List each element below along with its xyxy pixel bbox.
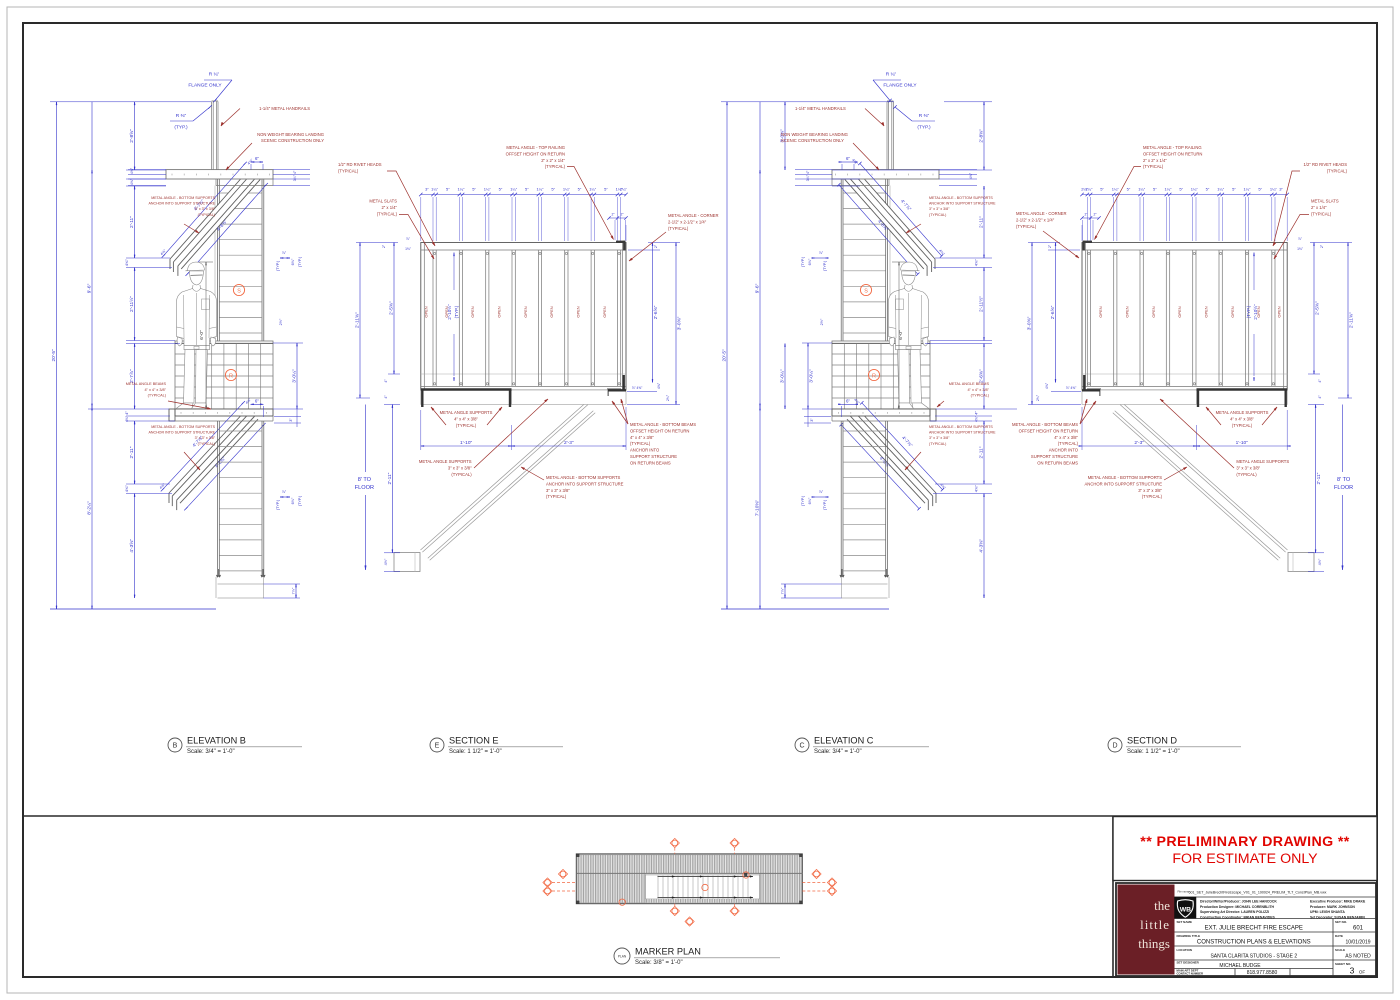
svg-text:3" x 3" x 3/8": 3" x 3" x 3/8" xyxy=(929,436,950,440)
svg-text:SET NO.: SET NO. xyxy=(1335,920,1347,924)
section D top slat spacing dims (blue) xyxy=(1082,194,1287,196)
svg-text:METAL ANGLE - CORNER: METAL ANGLE - CORNER xyxy=(668,213,719,218)
svg-text:METAL ANGLE - BOTTOM SUPPORTS: METAL ANGLE - BOTTOM SUPPORTS xyxy=(546,475,621,480)
svg-text:2'-11": 2'-11" xyxy=(979,216,985,228)
svg-text:4" x 4" x 3/8": 4" x 4" x 3/8" xyxy=(1230,416,1254,421)
elevation B marker R xyxy=(225,369,236,380)
section E corner angle top xyxy=(616,241,626,243)
warner brothers shield logo xyxy=(1175,897,1197,919)
svg-text:4⅝": 4⅝" xyxy=(969,172,973,179)
svg-text:2¾": 2¾" xyxy=(666,394,670,401)
elevation C top landing xyxy=(832,170,939,179)
svg-text:2" x 2" x 1/4": 2" x 2" x 1/4" xyxy=(541,158,565,163)
svg-text:METAL ANGLE - TOP RAILING: METAL ANGLE - TOP RAILING xyxy=(1143,145,1202,150)
svg-text:FLANGE ONLY: FLANGE ONLY xyxy=(883,83,917,89)
svg-text:E: E xyxy=(435,743,440,750)
svg-text:1¼": 1¼" xyxy=(484,187,492,192)
title block table frame xyxy=(1116,883,1376,976)
marker plan top hatched band xyxy=(577,855,801,874)
svg-text:3" x 3" x 3/8": 3" x 3" x 3/8" xyxy=(1138,488,1162,493)
svg-text:2-1/2" x 2-1/2" x 1/4": 2-1/2" x 2-1/2" x 1/4" xyxy=(668,219,707,224)
section D bottom width dims (blue) xyxy=(1197,445,1288,447)
svg-text:OPEN: OPEN xyxy=(602,306,607,317)
svg-text:1/2" RD RIVET HEADS: 1/2" RD RIVET HEADS xyxy=(1303,162,1347,167)
svg-text:601: 601 xyxy=(1353,926,1364,932)
svg-text:METAL ANGLE - BOTTOM BEAMS: METAL ANGLE - BOTTOM BEAMS xyxy=(630,422,696,427)
svg-text:5": 5" xyxy=(472,187,476,192)
elevation C below-grade pit xyxy=(841,583,888,585)
svg-text:⅞" 4⅝": ⅞" 4⅝" xyxy=(632,386,643,390)
svg-text:METAL ANGLE - BOTTOM SUPPORTS: METAL ANGLE - BOTTOM SUPPORTS xyxy=(929,425,993,429)
svg-text:ANCHOR INTO: ANCHOR INTO xyxy=(630,448,660,453)
svg-text:3" x 3" x 3/8": 3" x 3" x 3/8" xyxy=(929,207,950,211)
svg-text:4": 4" xyxy=(124,411,129,415)
svg-text:SUPPORT STRUCTURE: SUPPORT STRUCTURE xyxy=(1031,454,1078,459)
svg-text:METAL SLATS: METAL SLATS xyxy=(1311,199,1339,204)
svg-text:3" x 3" x 3/8": 3" x 3" x 3/8" xyxy=(195,207,216,211)
svg-text:1¼": 1¼" xyxy=(1165,187,1173,192)
svg-text:601_SET_JulieBrechtFireEscape_: 601_SET_JulieBrechtFireEscape_V01_01_190… xyxy=(1189,891,1327,895)
file name row xyxy=(1175,896,1377,898)
svg-text:S: S xyxy=(237,288,241,294)
svg-text:OFFSET HEIGHT ON RETURN: OFFSET HEIGHT ON RETURN xyxy=(630,428,689,433)
svg-text:2'-11": 2'-11" xyxy=(1316,472,1322,484)
svg-text:ON RETURN BEAMS: ON RETURN BEAMS xyxy=(1037,460,1078,465)
svg-text:OPEN: OPEN xyxy=(1125,306,1130,317)
marker plan right hatched block xyxy=(760,873,802,902)
svg-text:1-1/4" METAL HANDRAILS: 1-1/4" METAL HANDRAILS xyxy=(259,106,310,111)
elevation C extra left dims xyxy=(784,102,786,170)
svg-text:(TYP.): (TYP.) xyxy=(917,125,931,131)
svg-text:3" x 3" x 3/8": 3" x 3" x 3/8" xyxy=(448,466,472,471)
svg-text:** PRELIMINARY DRAWING **: ** PRELIMINARY DRAWING ** xyxy=(1140,834,1350,850)
svg-text:2¼": 2¼" xyxy=(620,187,628,192)
svg-text:Set Decorator: SUSAN BENJAMIN: Set Decorator: SUSAN BENJAMIN xyxy=(1310,915,1365,919)
svg-text:METAL ANGLE - BOTTOM SUPPORTS: METAL ANGLE - BOTTOM SUPPORTS xyxy=(1088,475,1163,480)
svg-text:2'-11": 2'-11" xyxy=(979,446,985,458)
svg-text:OPEN: OPEN xyxy=(1277,306,1282,317)
svg-text:5": 5" xyxy=(1258,187,1262,192)
svg-text:METAL ANGLE - BOTTOM SUPPORTS: METAL ANGLE - BOTTOM SUPPORTS xyxy=(151,425,215,429)
svg-text:2'-5⅝": 2'-5⅝" xyxy=(1315,301,1321,315)
svg-text:8' TO: 8' TO xyxy=(1337,477,1351,483)
section D corner mini dims (blue) xyxy=(1082,217,1099,219)
svg-text:(TYP.): (TYP.) xyxy=(276,499,280,510)
svg-text:6": 6" xyxy=(255,156,259,161)
svg-text:1¼": 1¼" xyxy=(1217,187,1225,192)
svg-text:6": 6" xyxy=(255,398,259,403)
svg-text:(TYP.): (TYP.) xyxy=(801,495,805,506)
svg-text:(TYPICAL): (TYPICAL) xyxy=(546,494,567,499)
svg-text:(TYPICAL): (TYPICAL) xyxy=(1232,423,1253,428)
svg-text:2'-11": 2'-11" xyxy=(129,216,135,228)
svg-text:ANCHOR INTO SUPPORT STRUCTURE: ANCHOR INTO SUPPORT STRUCTURE xyxy=(149,431,216,435)
svg-text:⅞": ⅞" xyxy=(819,490,824,494)
svg-text:Scale: 1 1/2" = 1'-0": Scale: 1 1/2" = 1'-0" xyxy=(449,749,502,755)
elevation C handrail pole xyxy=(892,102,894,170)
svg-text:⅞" 4⅝": ⅞" 4⅝" xyxy=(1066,386,1077,390)
section E stair vertical dim (blue) xyxy=(391,405,393,553)
svg-text:1¼": 1¼" xyxy=(458,187,466,192)
svg-text:3¼" 4": 3¼" 4" xyxy=(806,170,810,181)
elevation C upper ladder tower xyxy=(887,179,889,341)
svg-text:9'-6": 9'-6" xyxy=(755,283,761,293)
svg-text:R ⅜": R ⅜" xyxy=(176,113,187,119)
svg-text:1¼": 1¼" xyxy=(510,187,518,192)
elevation B top landing xyxy=(166,170,273,179)
svg-text:5": 5" xyxy=(578,187,582,192)
elevation C upper stair diagonal dims (blue) xyxy=(860,163,942,256)
section E floor band xyxy=(421,390,626,404)
view title SECTION D xyxy=(1108,738,1122,752)
svg-text:Director/Writer/Producer: JOHN: Director/Writer/Producer: JOHN LEE HANCO… xyxy=(1200,900,1277,904)
svg-text:(TYPICAL): (TYPICAL) xyxy=(456,423,477,428)
svg-text:3" x 3" x 3/8": 3" x 3" x 3/8" xyxy=(1236,466,1260,471)
svg-text:2'-11": 2'-11" xyxy=(129,446,135,458)
svg-text:6'-0": 6'-0" xyxy=(199,330,205,340)
svg-text:10/01/2019: 10/01/2019 xyxy=(1345,940,1370,946)
elevation B below-grade pit xyxy=(218,583,265,585)
svg-text:MICHAEL BUDGE: MICHAEL BUDGE xyxy=(1219,963,1261,969)
svg-text:(TYPICAL): (TYPICAL) xyxy=(198,442,215,446)
svg-text:ANCHOR INTO SUPPORT STRUCTURE: ANCHOR INTO SUPPORT STRUCTURE xyxy=(929,202,996,206)
svg-text:3'-0¼": 3'-0¼" xyxy=(809,369,815,383)
svg-text:1¼": 1¼" xyxy=(1191,187,1199,192)
marker plan corner posts xyxy=(577,854,580,857)
svg-text:NON WEIGHT BEARING LANDING: NON WEIGHT BEARING LANDING xyxy=(257,132,324,137)
svg-text:5": 5" xyxy=(1232,187,1236,192)
svg-text:OF: OF xyxy=(1359,970,1366,975)
svg-text:2" x 1/4": 2" x 1/4" xyxy=(381,205,397,210)
svg-text:2'-3": 2'-3" xyxy=(564,440,574,446)
svg-text:8'-2¼": 8'-2¼" xyxy=(87,501,93,515)
svg-text:7⅞": 7⅞" xyxy=(781,587,785,594)
svg-text:Scale: 3/4" = 1'-0": Scale: 3/4" = 1'-0" xyxy=(187,749,235,755)
svg-text:(TYPICAL): (TYPICAL) xyxy=(1058,441,1079,446)
title block vertical divider xyxy=(1112,816,1114,977)
svg-text:OFFSET HEIGHT ON RETURN: OFFSET HEIGHT ON RETURN xyxy=(1019,428,1078,433)
svg-text:4": 4" xyxy=(974,411,979,415)
svg-text:1¼": 1¼" xyxy=(1244,187,1252,192)
marker plan corridor line xyxy=(576,872,802,874)
section D stair end cap xyxy=(1288,553,1314,572)
svg-text:OPEN: OPEN xyxy=(470,306,475,317)
svg-text:(TYP.): (TYP.) xyxy=(823,260,827,271)
svg-text:2" x 1/4": 2" x 1/4" xyxy=(1311,205,1327,210)
svg-text:(TYPICAL): (TYPICAL) xyxy=(929,213,946,217)
the little things logo box xyxy=(1118,885,1175,975)
svg-text:(TYP.): (TYP.) xyxy=(276,260,280,271)
svg-text:UPM: LEIGH SHANTA: UPM: LEIGH SHANTA xyxy=(1310,910,1345,914)
svg-text:5": 5" xyxy=(604,187,608,192)
svg-text:4⅝": 4⅝" xyxy=(1045,382,1049,389)
svg-text:2'-7⅞": 2'-7⅞" xyxy=(129,369,135,383)
elevation C mid right dims (blue) xyxy=(815,257,825,259)
svg-text:3'-0¼": 3'-0¼" xyxy=(292,369,298,383)
svg-text:OFFSET HEIGHT ON RETURN: OFFSET HEIGHT ON RETURN xyxy=(506,151,565,156)
marker plan left hatched block xyxy=(577,873,645,902)
view title MARKER PLAN xyxy=(614,948,630,964)
elevation C marker S xyxy=(860,284,871,295)
svg-text:2" x 2" x 1/4": 2" x 2" x 1/4" xyxy=(1143,158,1167,163)
svg-text:SECTION E: SECTION E xyxy=(449,736,499,746)
svg-text:PLAN: PLAN xyxy=(618,954,627,958)
svg-text:20'-5": 20'-5" xyxy=(722,349,728,362)
section D railing frame xyxy=(1082,243,1287,391)
svg-text:the: the xyxy=(1154,898,1170,913)
svg-text:2-1/2" x 2-1/2" x 1/4": 2-1/2" x 2-1/2" x 1/4" xyxy=(1016,217,1055,222)
svg-text:R ¾": R ¾" xyxy=(886,72,897,78)
svg-text:4" x 4" x 3/8": 4" x 4" x 3/8" xyxy=(967,388,989,392)
svg-text:2'-8⅝": 2'-8⅝" xyxy=(129,129,135,143)
svg-text:(TYPICAL): (TYPICAL) xyxy=(929,442,946,446)
view title SECTION E xyxy=(430,738,444,752)
section E bottom width dims (blue) xyxy=(421,445,512,447)
svg-text:things: things xyxy=(1138,936,1170,951)
svg-text:1⅛": 1⅛" xyxy=(405,247,412,251)
svg-text:5": 5" xyxy=(551,187,555,192)
svg-text:5": 5" xyxy=(1100,187,1104,192)
svg-text:AS NOTED: AS NOTED xyxy=(1345,954,1371,960)
svg-text:OPEN: OPEN xyxy=(1098,306,1103,317)
elevation C marker R xyxy=(868,369,879,380)
svg-text:2'-11⅝": 2'-11⅝" xyxy=(355,312,361,328)
elevation C balcony floor xyxy=(832,409,930,416)
svg-text:1¼": 1¼" xyxy=(537,187,545,192)
svg-text:R: R xyxy=(872,373,876,379)
svg-text:R ¾": R ¾" xyxy=(209,72,220,78)
svg-text:little: little xyxy=(1140,917,1170,932)
section E slat extension lines (blue) xyxy=(432,197,434,241)
elevation B handrail pole xyxy=(211,102,213,170)
svg-text:⅞": ⅞" xyxy=(819,251,824,255)
elevation C storey dims 9-6 / 8-2 xyxy=(759,102,761,609)
elevation B chain dimension stack (blue) xyxy=(134,102,136,170)
svg-text:4⅝": 4⅝" xyxy=(124,485,129,493)
svg-text:3" x 3" x 3/8": 3" x 3" x 3/8" xyxy=(195,436,216,440)
svg-text:(TYPICAL): (TYPICAL) xyxy=(668,226,689,231)
svg-text:2'-8⅝": 2'-8⅝" xyxy=(979,129,985,143)
svg-text:6⅝": 6⅝" xyxy=(808,497,812,504)
svg-text:MARKER PLAN: MARKER PLAN xyxy=(635,947,701,957)
svg-text:METAL ANGLE BEAMS: METAL ANGLE BEAMS xyxy=(949,382,990,386)
svg-text:5": 5" xyxy=(1206,187,1210,192)
svg-text:5": 5" xyxy=(1127,187,1131,192)
svg-text:2¼": 2¼" xyxy=(1081,187,1089,192)
svg-text:DATE: DATE xyxy=(1335,934,1343,938)
svg-text:ANCHOR INTO: ANCHOR INTO xyxy=(1049,448,1079,453)
svg-text:5": 5" xyxy=(1153,187,1157,192)
elevation B overall height dim 20-5 xyxy=(56,102,58,609)
preliminary drawing stamp box xyxy=(1113,817,1377,881)
svg-text:OFFSET HEIGHT ON RETURN: OFFSET HEIGHT ON RETURN xyxy=(1143,151,1202,156)
svg-text:Executive Producer: MIKE DRAKE: Executive Producer: MIKE DRAKE xyxy=(1310,900,1366,904)
svg-text:OPEN: OPEN xyxy=(1151,306,1156,317)
section E bottom angle supports xyxy=(421,388,512,390)
svg-text:1⅛": 1⅛" xyxy=(1297,247,1304,251)
section E corner mini dims (blue) xyxy=(609,217,626,219)
svg-text:2'-10½": 2'-10½" xyxy=(1252,304,1258,320)
svg-text:(TYP.): (TYP.) xyxy=(823,499,827,510)
svg-text:3: 3 xyxy=(1350,966,1355,976)
svg-text:5": 5" xyxy=(525,187,529,192)
credits rows xyxy=(1175,918,1377,920)
elevation C person figure xyxy=(901,262,920,271)
svg-text:(TYPICAL): (TYPICAL) xyxy=(1327,168,1348,173)
svg-text:METAL ANGLE - BOTTOM SUPPORTS: METAL ANGLE - BOTTOM SUPPORTS xyxy=(929,196,993,200)
svg-text:METAL ANGLE - BOTTOM BEAMS: METAL ANGLE - BOTTOM BEAMS xyxy=(1012,422,1078,427)
svg-text:2'-6⅝": 2'-6⅝" xyxy=(979,369,985,383)
elevation B person height dim 6'-0" xyxy=(205,262,207,409)
svg-text:R: R xyxy=(229,373,233,379)
svg-text:(TYPICAL): (TYPICAL) xyxy=(1311,211,1332,216)
svg-text:8' TO: 8' TO xyxy=(358,477,372,483)
svg-text:2'-10½": 2'-10½" xyxy=(446,304,452,320)
svg-text:METAL ANGLE SUPPORTS: METAL ANGLE SUPPORTS xyxy=(440,410,493,415)
svg-text:6⅝": 6⅝" xyxy=(291,258,295,265)
svg-text:1¼": 1¼" xyxy=(431,187,439,192)
svg-text:(TYPICAL): (TYPICAL) xyxy=(1236,472,1257,477)
svg-text:(TYPICAL): (TYPICAL) xyxy=(198,213,215,217)
svg-text:4⅝": 4⅝" xyxy=(657,382,661,389)
svg-text:2'-3": 2'-3" xyxy=(1134,440,1144,446)
svg-text:ANCHOR INTO SUPPORT STRUCTURE: ANCHOR INTO SUPPORT STRUCTURE xyxy=(1085,481,1163,486)
svg-text:⅞": ⅞" xyxy=(282,251,287,255)
svg-text:4" x 4" x 3/8": 4" x 4" x 3/8" xyxy=(454,416,478,421)
svg-text:(TYPICAL): (TYPICAL) xyxy=(451,472,472,477)
elevation B mid right dims (blue) xyxy=(280,257,290,259)
elevation B balcony floor xyxy=(175,409,273,416)
svg-text:SCENIC CONSTRUCTION ONLY: SCENIC CONSTRUCTION ONLY xyxy=(261,138,324,143)
elevation C upper stair flight xyxy=(845,170,935,269)
section D stair vertical dim (blue) xyxy=(1315,405,1317,553)
svg-text:SECTION D: SECTION D xyxy=(1127,736,1177,746)
svg-text:METAL ANGLE SUPPORTS: METAL ANGLE SUPPORTS xyxy=(1236,459,1289,464)
svg-text:WB: WB xyxy=(1180,907,1191,914)
svg-text:Scale: 1 1/2" = 1'-0": Scale: 1 1/2" = 1'-0" xyxy=(1127,749,1180,755)
svg-text:Scale: 3/8" = 1'-0": Scale: 3/8" = 1'-0" xyxy=(635,960,683,966)
elevation B landing small dims (blue) xyxy=(128,169,166,171)
svg-text:SET NAME: SET NAME xyxy=(1177,920,1193,924)
svg-text:(TYPICAL): (TYPICAL) xyxy=(148,394,167,398)
svg-text:6": 6" xyxy=(846,398,850,403)
svg-text:ANCHOR INTO SUPPORT STRUCTURE: ANCHOR INTO SUPPORT STRUCTURE xyxy=(929,431,996,435)
svg-text:2½": 2½" xyxy=(279,318,283,325)
svg-text:1¼": 1¼" xyxy=(1270,187,1278,192)
svg-text:5": 5" xyxy=(499,187,503,192)
svg-text:2'-6⅝": 2'-6⅝" xyxy=(653,305,659,319)
svg-text:C: C xyxy=(799,743,804,750)
svg-text:Construction Coordinator: BRIA: Construction Coordinator: BRIAN BENAVIDE… xyxy=(1200,915,1275,919)
svg-text:DRAWING TITLE: DRAWING TITLE xyxy=(1177,934,1201,938)
svg-text:3'-0⅝": 3'-0⅝" xyxy=(1027,316,1033,330)
svg-text:4" x 4" x 3/8": 4" x 4" x 3/8" xyxy=(1054,435,1078,440)
svg-text:4⅝": 4⅝" xyxy=(974,485,979,493)
svg-text:1'-10": 1'-10" xyxy=(460,440,473,446)
svg-text:(TYPICAL): (TYPICAL) xyxy=(545,164,566,169)
svg-text:6⅝": 6⅝" xyxy=(808,258,812,265)
svg-text:CONSTRUCTION PLANS & ELEVATION: CONSTRUCTION PLANS & ELEVATIONS xyxy=(1197,940,1311,946)
section D slat extension lines (blue) xyxy=(1274,197,1276,241)
svg-text:5": 5" xyxy=(446,187,450,192)
svg-text:SET DESIGNER: SET DESIGNER xyxy=(1177,961,1200,965)
svg-text:OPEN: OPEN xyxy=(497,306,502,317)
svg-text:S: S xyxy=(864,288,868,294)
section D floor band xyxy=(1082,390,1287,404)
elevation B person figure xyxy=(186,262,205,271)
elevation C person height dim 6'-0" xyxy=(898,262,900,409)
svg-text:3" x 3" x 3/8": 3" x 3" x 3/8" xyxy=(546,488,570,493)
svg-text:(TYPICAL): (TYPICAL) xyxy=(971,394,990,398)
svg-text:4'-3⅝": 4'-3⅝" xyxy=(129,539,135,553)
svg-text:OPEN: OPEN xyxy=(424,306,429,317)
svg-text:(TYP.): (TYP.) xyxy=(454,305,459,318)
svg-text:9'-6": 9'-6" xyxy=(87,283,93,293)
svg-text:OPEN: OPEN xyxy=(523,306,528,317)
svg-text:3'-0⅝": 3'-0⅝" xyxy=(677,316,683,330)
svg-text:3'-0¼": 3'-0¼" xyxy=(780,369,786,383)
elevation B dim tick lines (blue) xyxy=(50,101,211,103)
elevation C overall height dim 20-5 xyxy=(726,102,728,609)
svg-text:2½": 2½" xyxy=(820,318,824,325)
svg-text:(TYPICAL): (TYPICAL) xyxy=(1142,494,1163,499)
svg-text:4⅝": 4⅝" xyxy=(124,259,129,267)
svg-text:EXT. JULIE BRECHT FIRE ESCAPE: EXT. JULIE BRECHT FIRE ESCAPE xyxy=(1205,926,1303,932)
svg-text:6": 6" xyxy=(846,156,850,161)
svg-text:818.977.8580: 818.977.8580 xyxy=(1247,970,1278,976)
elevation B lower ladder tower xyxy=(217,421,219,577)
elevation B upper ladder tower xyxy=(217,179,219,341)
elevation C balcony railing grid xyxy=(832,341,930,409)
svg-text:Scale: 3/4" = 1'-0": Scale: 3/4" = 1'-0" xyxy=(814,749,862,755)
svg-text:(TYPICAL): (TYPICAL) xyxy=(377,211,398,216)
svg-text:1-1/4" METAL HANDRAILS: 1-1/4" METAL HANDRAILS xyxy=(795,106,846,111)
svg-text:(TYPICAL): (TYPICAL) xyxy=(1143,164,1164,169)
section D metal slats with rivets xyxy=(1274,250,1276,386)
section E stair end cap xyxy=(394,553,420,572)
svg-text:Producer: MARK JOHNSON: Producer: MARK JOHNSON xyxy=(1310,905,1355,909)
svg-text:B: B xyxy=(173,743,178,750)
svg-text:SCALE: SCALE xyxy=(1335,948,1345,952)
svg-text:ON RETURN BEAMS: ON RETURN BEAMS xyxy=(630,460,671,465)
svg-text:METAL ANGLE SUPPORTS: METAL ANGLE SUPPORTS xyxy=(1216,410,1269,415)
svg-text:METAL SLATS: METAL SLATS xyxy=(369,199,397,204)
svg-text:OPEN: OPEN xyxy=(549,306,554,317)
elevation C lower ladder tower xyxy=(887,421,889,577)
svg-text:4⅝": 4⅝" xyxy=(130,178,134,185)
svg-text:1¼": 1¼" xyxy=(1138,187,1146,192)
svg-text:ELEVATION B: ELEVATION B xyxy=(187,736,246,746)
svg-text:(TYP.): (TYP.) xyxy=(298,495,302,506)
svg-text:METAL ANGLE SUPPORTS: METAL ANGLE SUPPORTS xyxy=(419,459,472,464)
svg-text:LOCATION: LOCATION xyxy=(1177,948,1192,952)
svg-text:ANCHOR INTO SUPPORT STRUCTURE: ANCHOR INTO SUPPORT STRUCTURE xyxy=(546,481,624,486)
svg-text:1¼": 1¼" xyxy=(589,187,597,192)
svg-text:Supervising Art Director: LAUR: Supervising Art Director: LAUREN POLIZZI xyxy=(1200,910,1269,914)
view title ELEVATION C xyxy=(795,738,809,752)
marker plan interior stair treads xyxy=(645,875,759,899)
svg-text:2'-11": 2'-11" xyxy=(387,472,393,484)
svg-text:OPEN: OPEN xyxy=(1177,306,1182,317)
svg-text:METAL ANGLE BEAMS: METAL ANGLE BEAMS xyxy=(126,382,167,386)
svg-text:4⅝": 4⅝" xyxy=(130,167,134,174)
svg-text:(TYP.): (TYP.) xyxy=(174,125,188,131)
svg-text:OPEN: OPEN xyxy=(576,306,581,317)
svg-text:METAL ANGLE - CORNER: METAL ANGLE - CORNER xyxy=(1016,211,1067,216)
svg-text:CONTACT NUMBER: CONTACT NUMBER xyxy=(1177,972,1204,976)
svg-text:METAL ANGLE - BOTTOM SUPPORTS: METAL ANGLE - BOTTOM SUPPORTS xyxy=(151,196,215,200)
svg-text:4" x 4" x 3/8": 4" x 4" x 3/8" xyxy=(630,435,654,440)
